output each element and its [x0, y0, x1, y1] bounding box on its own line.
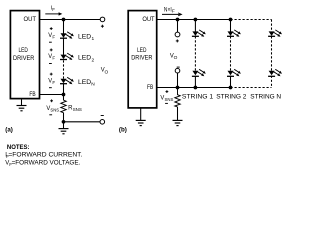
svg-text:STRING 1: STRING 1 [182, 94, 214, 101]
string 2 dashed middle (b) [230, 36, 232, 71]
LED2 with VF marking [48, 49, 94, 64]
node junction string 1 top (b) [194, 18, 198, 22]
svg-text:1: 1 [92, 36, 95, 42]
string 1 bottom wire (b) [194, 76, 196, 88]
string N dashed middle (b) [271, 36, 273, 71]
ground under LED driver (a) [17, 99, 27, 110]
svg-text:N: N [91, 82, 95, 88]
dashed wire LED2 to LEDN (a) [63, 60, 65, 78]
svg-text:LED: LED [19, 47, 29, 54]
ground below sense resistor (b) [173, 107, 183, 126]
VO - terminal (b) [175, 67, 180, 87]
string N upper LED [268, 30, 282, 37]
string N top dashed wire (b) [271, 20, 273, 32]
bottom rail to - terminal (a) [64, 121, 101, 123]
string N bottom dashed wire (b) [271, 76, 273, 88]
sense resistor (b) [175, 88, 180, 107]
svg-text:SNS: SNS [50, 107, 59, 112]
svg-text:LED: LED [137, 47, 147, 54]
node junction sense resistor (b) [176, 86, 180, 90]
svg-text:O: O [105, 69, 109, 75]
svg-text:LED: LED [78, 79, 92, 86]
svg-text:OUT: OUT [24, 16, 37, 23]
svg-text:OUT: OUT [142, 16, 154, 23]
node junction string 2 top (b) [229, 18, 233, 22]
LED1 with VF marking [48, 27, 94, 42]
node junction bottom rail (a) [62, 120, 66, 124]
VSNS label (b) [160, 90, 173, 103]
svg-text:DRIVER: DRIVER [131, 55, 153, 62]
bottom rail FB (b) solid part [157, 87, 231, 89]
top rail dashed to string N (b) [231, 19, 272, 21]
VSNS label (a) [46, 99, 59, 114]
svg-text:STRING 2: STRING 2 [216, 94, 247, 101]
ground below RSNS (a) [59, 122, 69, 134]
LED driver U2 (circuit b) box [128, 11, 157, 108]
current label NxIF with arrow (b) [162, 6, 182, 16]
svg-text:O: O [174, 55, 178, 61]
node junction VO+ stub (b) [176, 18, 180, 22]
svg-text:2: 2 [92, 57, 95, 63]
string 1 top wire (b) [194, 20, 196, 32]
svg-text:F: F [52, 34, 55, 39]
string 1 lower LED [192, 69, 206, 76]
svg-text:F: F [52, 7, 55, 12]
bottom rail dashed to string N (b) [231, 87, 272, 89]
string 2 bottom wire (b) [230, 76, 232, 88]
wire node to LED1 (a) [63, 20, 65, 34]
svg-text:=FORWARD CURRENT.: =FORWARD CURRENT. [8, 153, 82, 159]
svg-text:SNS: SNS [165, 97, 174, 102]
wire LED1 to LED2 (a) [63, 38, 65, 55]
note line 2 [5, 161, 80, 168]
resistor RSNS [61, 100, 82, 113]
wire OUT (a) to + terminal [40, 19, 100, 21]
+ output terminal (a) [100, 17, 105, 28]
svg-text:(a): (a) [5, 127, 13, 134]
node junction top of LED string (a) [62, 18, 66, 22]
svg-text:F: F [52, 80, 55, 85]
string 2 lower LED [227, 69, 241, 76]
LEDN with VF marking [48, 73, 95, 88]
string 2 top wire (b) [230, 20, 232, 32]
svg-text:SNS: SNS [73, 107, 82, 112]
string 2 upper LED [227, 30, 241, 37]
svg-text:FB: FB [147, 84, 153, 91]
- output terminal (a) [100, 116, 105, 125]
label LED DRIVER (b) [131, 47, 153, 62]
wire FB to sense node (a) [40, 94, 64, 96]
label LED DRIVER (a) [13, 47, 35, 62]
svg-text:N×I: N×I [164, 6, 172, 13]
top rail OUT (b) solid part [157, 19, 231, 21]
svg-text:DRIVER: DRIVER [13, 55, 35, 62]
svg-text:LED: LED [78, 55, 92, 62]
svg-text:LED: LED [78, 33, 92, 40]
node junction FB / RSNS (a) [62, 93, 66, 97]
svg-text:NOTES:: NOTES: [7, 145, 30, 151]
note line 1 [5, 153, 82, 160]
svg-text:F: F [172, 8, 175, 14]
string 1 upper LED [192, 30, 206, 37]
svg-text:FB: FB [29, 91, 35, 98]
VO + terminal (b) [175, 20, 180, 43]
string N lower LED [268, 69, 282, 76]
VO label (b) [170, 52, 178, 61]
svg-text:=FORWARD VOLTAGE.: =FORWARD VOLTAGE. [12, 161, 81, 167]
wire resistor to bottom rail (a) [63, 113, 65, 122]
wire LEDN to sense node (a) [63, 84, 65, 101]
VO label (a) [101, 67, 109, 76]
ground under LED driver (b) [136, 108, 146, 126]
svg-text:(b): (b) [119, 127, 127, 134]
svg-text:STRING N: STRING N [250, 94, 281, 101]
LED driver U1 (circuit a) box [10, 11, 39, 99]
node junction string 1 bottom (b) [194, 86, 198, 90]
string 1 dashed middle (b) [194, 36, 196, 71]
node junction string 2 bottom (b) [229, 86, 233, 90]
current label IF with arrow (a) [45, 5, 62, 15]
svg-text:F: F [52, 56, 55, 61]
